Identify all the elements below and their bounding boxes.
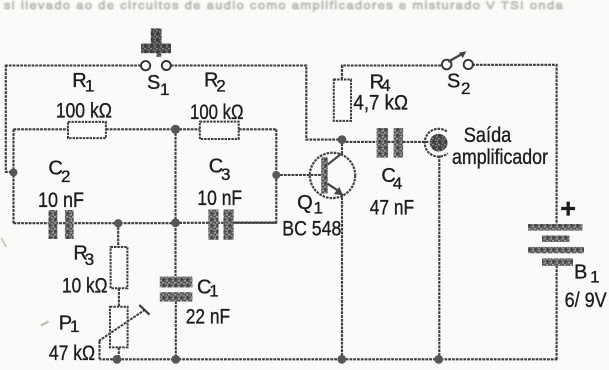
label + (battery positive) <box>560 194 576 224</box>
transistor Q1 body circle <box>310 153 355 198</box>
wire C2 row <box>14 222 176 224</box>
wire bottom rail <box>100 358 558 360</box>
junction node R1/R2 <box>171 125 180 134</box>
switch S1 pushbutton actuator <box>141 28 171 56</box>
svg-text:2: 2 <box>216 77 225 96</box>
svg-text:4,7 kΩ: 4,7 kΩ <box>353 92 408 115</box>
value 4,7 kΩ (R4) <box>353 92 408 115</box>
svg-text:10 nF: 10 nF <box>197 187 242 210</box>
svg-text:amplificador: amplificador <box>452 146 548 169</box>
wire R1 row <box>14 128 176 130</box>
svg-text:Q: Q <box>297 192 312 214</box>
resistor R2 <box>200 122 239 139</box>
svg-text:1: 1 <box>590 268 599 287</box>
wire Q1 collector vertical <box>341 140 343 155</box>
label P1 <box>59 313 79 337</box>
svg-text:6/ 9V: 6/ 9V <box>565 289 607 312</box>
label R2 <box>204 69 225 95</box>
label C1 <box>197 277 218 301</box>
svg-text:47 kΩ: 47 kΩ <box>49 342 95 365</box>
svg-text:1: 1 <box>70 317 79 336</box>
value 10 kΩ (R3) <box>62 275 108 298</box>
svg-text:3: 3 <box>221 165 230 184</box>
output jack: outer arc <box>425 129 448 157</box>
label S2 <box>447 71 470 99</box>
junction node collector/R4/C4 <box>338 135 347 144</box>
label R1 <box>72 70 94 96</box>
svg-text:BC 548: BC 548 <box>282 217 341 240</box>
wire top rail left (from left corner to S1) <box>5 64 141 66</box>
wire P1 bottom lead <box>118 347 120 359</box>
svg-text:S: S <box>147 72 160 94</box>
svg-text:10 nF: 10 nF <box>38 189 84 212</box>
value 47 nF (C4) <box>370 196 414 219</box>
svg-text:47 nF: 47 nF <box>370 196 414 219</box>
svg-text:Saída: Saída <box>464 124 512 147</box>
label S1 <box>147 72 169 99</box>
value 10 nF (C2) <box>38 189 84 212</box>
svg-text:4: 4 <box>393 174 402 193</box>
battery B1 plates <box>528 224 584 266</box>
label R4 <box>370 72 391 95</box>
wire R3 to P1 <box>118 288 120 307</box>
svg-text:22 nF: 22 nF <box>186 306 231 329</box>
value 6/ 9V (B1) <box>565 289 607 312</box>
svg-text:2: 2 <box>61 167 70 186</box>
switch S2 contacts <box>442 60 473 70</box>
resistor R3 <box>111 247 128 288</box>
wire Q1 base <box>276 174 321 176</box>
junction node base <box>272 171 280 179</box>
svg-text:1: 1 <box>85 77 94 96</box>
value 22 nF (C1) <box>186 306 231 329</box>
switch S2 lever <box>448 51 466 61</box>
junction node left feedback <box>10 169 18 177</box>
label Saída amplificador <box>452 124 548 169</box>
junction node rail emitter <box>337 355 346 364</box>
wire C1 bottom to rail <box>175 301 177 359</box>
switch S1 contacts <box>141 61 171 70</box>
value 10 nF (C3) <box>197 187 242 210</box>
output jack: inner plug <box>430 134 448 152</box>
resistor R4 <box>334 80 351 121</box>
junction node C2/R3 <box>114 219 122 227</box>
wire R4 top to rail and to S2 left <box>342 66 443 80</box>
wire mid vertical node to C1 <box>174 129 176 276</box>
svg-text:B: B <box>574 262 587 284</box>
value 47 kΩ (P1) <box>49 342 95 365</box>
wire Q1 emitter vertical <box>341 194 343 360</box>
wire C3 row <box>176 222 277 224</box>
wire R3 top lead <box>117 223 119 247</box>
wire R2 right vertical down to C3 right <box>234 129 276 222</box>
label Q1 <box>297 192 323 218</box>
capacitor C1 plates <box>160 277 193 302</box>
wire battery bottom down <box>556 266 558 360</box>
value 100 kΩ (R2) <box>190 101 244 124</box>
svg-text:1: 1 <box>209 282 218 301</box>
junction node C2/C3/mid <box>171 218 180 227</box>
wire S1 right to Q1 collector node <box>171 66 342 140</box>
potentiometer P1 wiper arrow <box>99 305 150 341</box>
capacitor C4 plates <box>377 128 404 158</box>
junction node rail C1 <box>171 355 180 364</box>
label C2 <box>48 157 70 186</box>
label R3 <box>73 243 93 270</box>
resistor R1 <box>68 122 106 138</box>
wire R2 row <box>176 128 277 130</box>
svg-text:3: 3 <box>85 250 94 269</box>
value 100 kΩ (R1) <box>56 100 112 123</box>
wire S2 right to top-right corner and down to battery <box>472 65 556 225</box>
junction node rail jack <box>434 355 443 364</box>
potentiometer P1 body <box>110 307 128 348</box>
svg-text:100 kΩ: 100 kΩ <box>190 101 244 124</box>
svg-text:10 kΩ: 10 kΩ <box>62 275 108 298</box>
wire P1 wiper to bottom rail <box>98 341 100 359</box>
capacitor C2 plates <box>49 210 74 239</box>
wire left outer branch (top-left corner down to junction) <box>6 65 14 172</box>
transistor Q1 base bar <box>321 157 328 193</box>
faint scan smudge near P1 label <box>41 322 49 326</box>
label C3 <box>209 156 230 184</box>
wire jack down to rail <box>438 156 440 360</box>
label C4 <box>381 165 401 193</box>
svg-text:1: 1 <box>314 199 323 218</box>
svg-text:100 kΩ: 100 kΩ <box>56 100 112 123</box>
svg-text:+: + <box>560 194 576 224</box>
wire C4 row <box>342 141 429 143</box>
label BC 548 (Q1 type) <box>282 217 341 240</box>
capacitor C3 plates <box>208 210 233 240</box>
label B1 <box>574 262 599 287</box>
svg-text:si ilevado ao de circuitos de: si ilevado ao de circuitos de audio como… <box>4 0 564 12</box>
transistor Q1 emitter stroke with arrow <box>328 184 343 196</box>
junction node rail P1 <box>113 355 122 364</box>
transistor Q1 collector stroke <box>328 153 343 165</box>
wire inner left vertical (R1 left to C2 left) <box>12 129 14 223</box>
svg-text:2: 2 <box>461 79 470 98</box>
svg-text:1: 1 <box>160 80 169 99</box>
faint scan smudge at left edge mid <box>2 238 7 247</box>
svg-text:S: S <box>447 71 460 93</box>
